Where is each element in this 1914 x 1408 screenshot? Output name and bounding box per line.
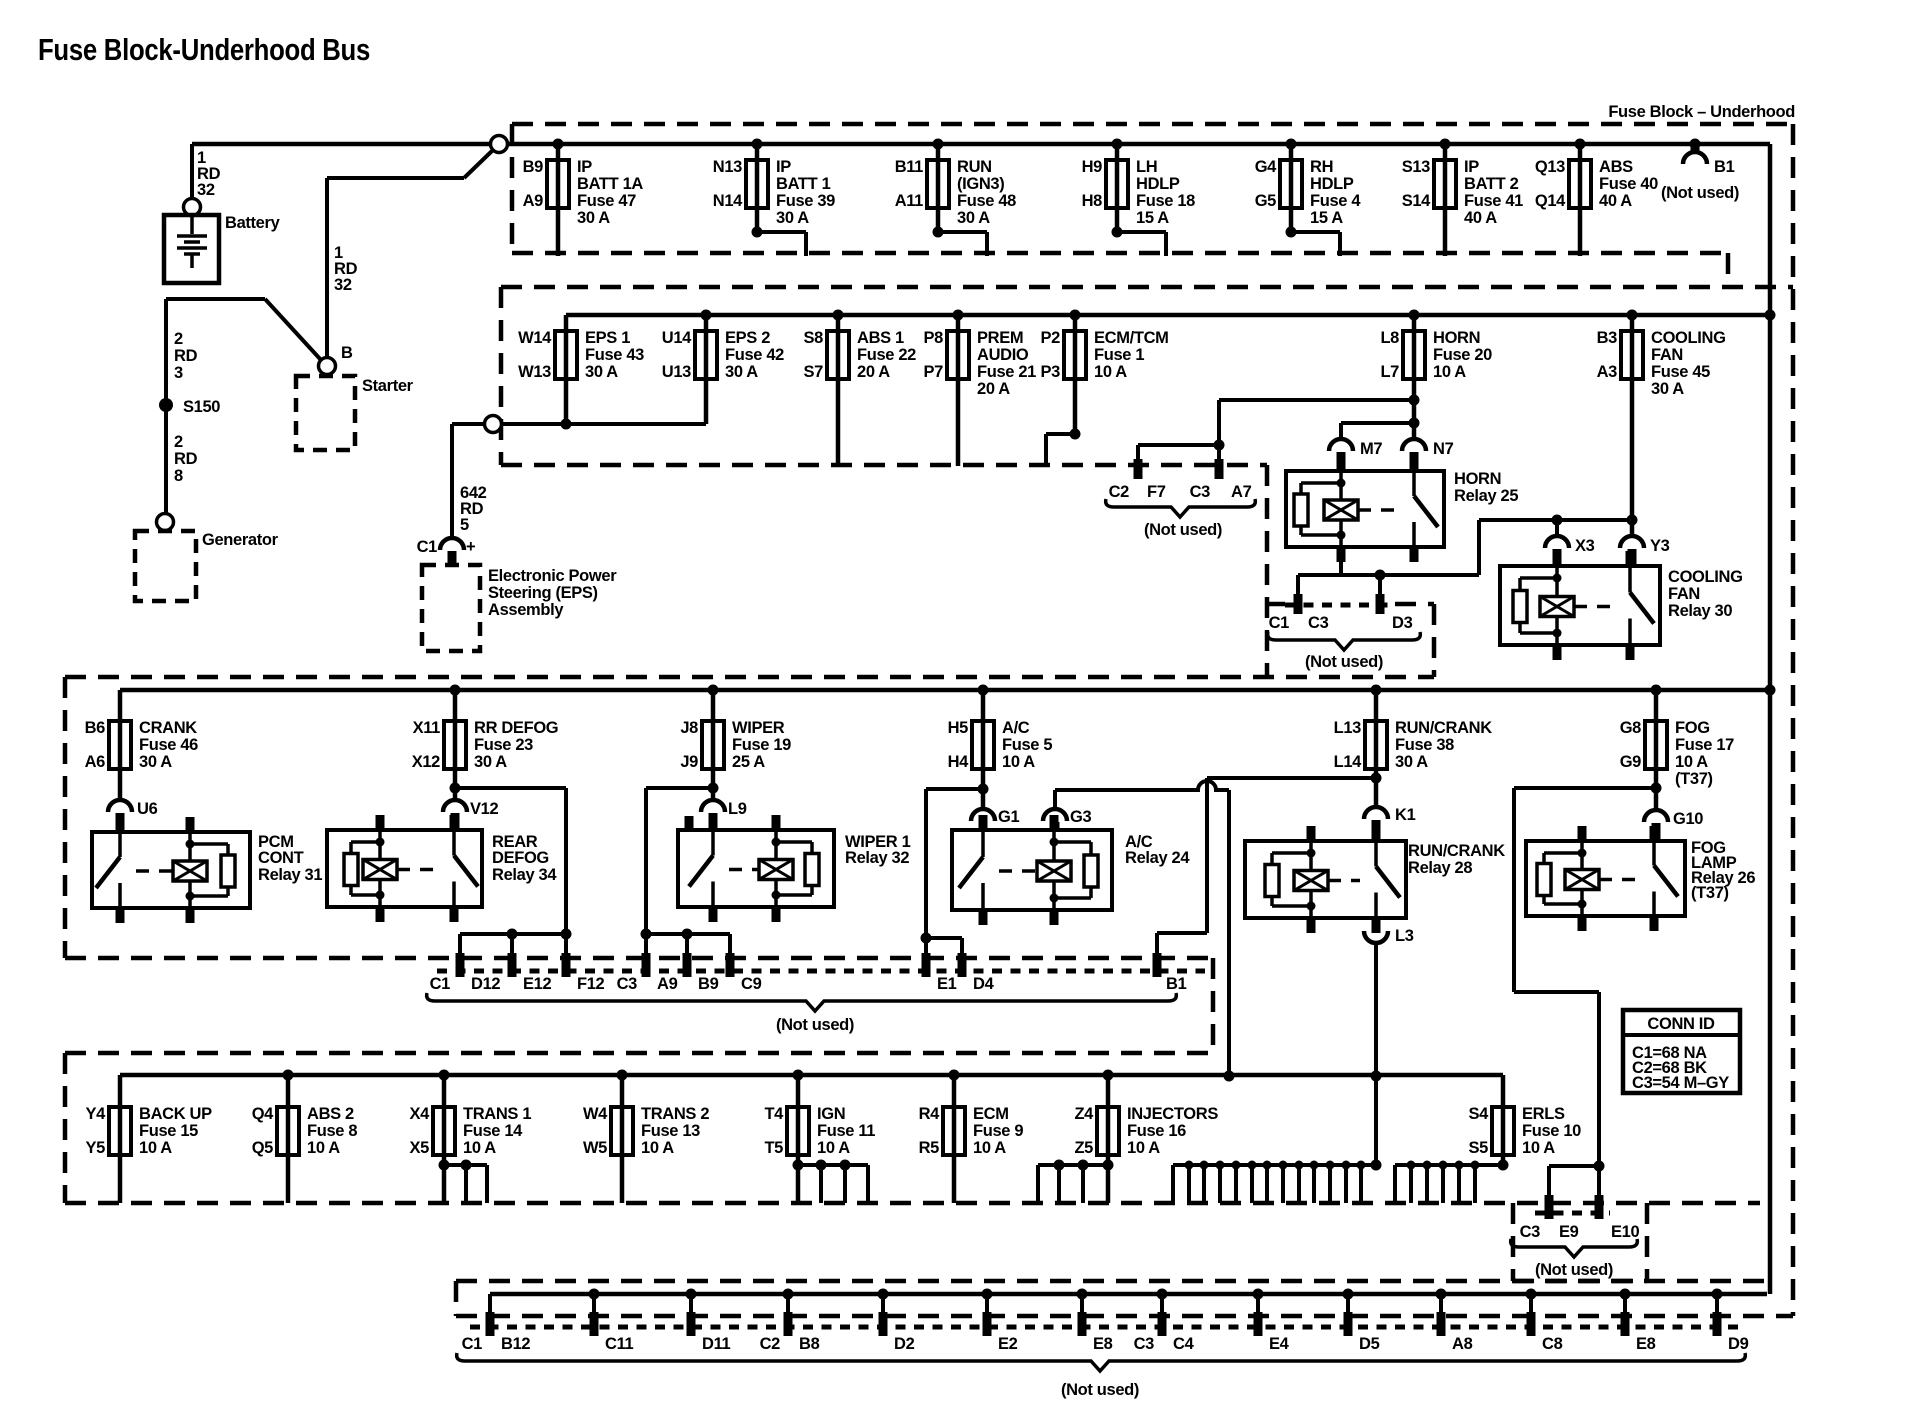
svg-text:Y3: Y3 — [1650, 537, 1670, 555]
svg-text:Q5: Q5 — [252, 1139, 273, 1157]
svg-text:B6: B6 — [85, 719, 106, 737]
svg-text:C11: C11 — [605, 1335, 633, 1353]
svg-text:COOLING: COOLING — [1668, 568, 1743, 586]
svg-text:FAN: FAN — [1668, 585, 1700, 603]
svg-text:Y4: Y4 — [86, 1105, 107, 1123]
svg-text:COOLING: COOLING — [1651, 329, 1726, 347]
svg-text:E9: E9 — [1559, 1223, 1579, 1241]
svg-text:LH: LH — [1136, 158, 1157, 176]
svg-text:N7: N7 — [1433, 440, 1454, 458]
svg-text:8: 8 — [174, 467, 183, 485]
svg-text:2: 2 — [174, 433, 183, 451]
svg-text:X4: X4 — [410, 1105, 431, 1123]
svg-text:J8: J8 — [680, 719, 698, 737]
svg-text:Relay 32: Relay 32 — [845, 849, 909, 867]
svg-text:IP: IP — [1464, 158, 1479, 176]
svg-text:25 A: 25 A — [732, 753, 765, 771]
svg-text:Fuse 16: Fuse 16 — [1127, 1122, 1186, 1140]
svg-text:C8: C8 — [1542, 1335, 1563, 1353]
svg-text:L14: L14 — [1334, 753, 1363, 771]
svg-text:Fuse 47: Fuse 47 — [577, 192, 636, 210]
svg-text:H8: H8 — [1082, 192, 1103, 210]
svg-text:N13: N13 — [713, 158, 742, 176]
svg-text:F12: F12 — [577, 975, 605, 993]
svg-text:10 A: 10 A — [641, 1139, 674, 1157]
svg-text:Fuse 17: Fuse 17 — [1675, 736, 1734, 754]
svg-text:HDLP: HDLP — [1310, 175, 1354, 193]
svg-text:RUN/CRANK: RUN/CRANK — [1408, 842, 1505, 860]
svg-text:10 A: 10 A — [139, 1139, 172, 1157]
svg-text:(Not used): (Not used) — [1305, 653, 1383, 671]
svg-text:Relay 31: Relay 31 — [258, 866, 322, 884]
svg-text:ABS: ABS — [1599, 158, 1633, 176]
svg-text:EPS 2: EPS 2 — [725, 329, 770, 347]
svg-text:A11: A11 — [895, 192, 923, 210]
svg-text:L3: L3 — [1395, 927, 1414, 945]
svg-text:WIPER: WIPER — [732, 719, 785, 737]
svg-text:15 A: 15 A — [1136, 209, 1169, 227]
svg-text:RD: RD — [174, 347, 198, 365]
svg-text:CONT: CONT — [258, 849, 304, 867]
svg-text:C1: C1 — [462, 1335, 483, 1353]
svg-text:D3: D3 — [1392, 614, 1413, 632]
svg-text:Z5: Z5 — [1074, 1139, 1093, 1157]
svg-text:C3: C3 — [1190, 483, 1211, 501]
svg-text:+: + — [466, 538, 475, 556]
svg-text:G1: G1 — [998, 808, 1019, 826]
svg-text:CRANK: CRANK — [139, 719, 197, 737]
svg-text:W5: W5 — [583, 1139, 607, 1157]
svg-text:10 A: 10 A — [1675, 753, 1708, 771]
svg-text:Fuse 38: Fuse 38 — [1395, 736, 1454, 754]
svg-text:30 A: 30 A — [1651, 380, 1684, 398]
svg-text:A6: A6 — [85, 753, 106, 771]
svg-text:G10: G10 — [1673, 810, 1703, 828]
svg-text:INJECTORS: INJECTORS — [1127, 1105, 1218, 1123]
svg-text:BACK UP: BACK UP — [139, 1105, 212, 1123]
svg-text:L8: L8 — [1380, 329, 1399, 347]
svg-text:E4: E4 — [1269, 1335, 1290, 1353]
svg-text:B3: B3 — [1597, 329, 1618, 347]
svg-text:P8: P8 — [924, 329, 944, 347]
svg-text:S13: S13 — [1402, 158, 1430, 176]
svg-text:5: 5 — [460, 516, 469, 534]
svg-text:H9: H9 — [1082, 158, 1103, 176]
svg-text:C4: C4 — [1173, 1335, 1195, 1353]
svg-text:2: 2 — [174, 330, 183, 348]
svg-text:G3: G3 — [1070, 808, 1091, 826]
svg-text:C3: C3 — [617, 975, 638, 993]
svg-text:Battery: Battery — [225, 214, 281, 232]
svg-text:S14: S14 — [1402, 192, 1431, 210]
svg-text:Q13: Q13 — [1535, 158, 1565, 176]
svg-text:AUDIO: AUDIO — [977, 346, 1029, 364]
svg-text:X12: X12 — [412, 753, 440, 771]
svg-text:Generator: Generator — [202, 531, 279, 549]
svg-text:X3: X3 — [1575, 537, 1595, 555]
svg-text:Fuse 23: Fuse 23 — [474, 736, 533, 754]
svg-text:P2: P2 — [1041, 329, 1061, 347]
svg-text:FAN: FAN — [1651, 346, 1683, 364]
svg-text:(IGN3): (IGN3) — [957, 175, 1004, 193]
svg-text:RUN/CRANK: RUN/CRANK — [1395, 719, 1492, 737]
svg-text:S8: S8 — [804, 329, 824, 347]
svg-text:C1: C1 — [430, 975, 451, 993]
svg-text:Assembly: Assembly — [488, 601, 564, 619]
svg-text:(Not used): (Not used) — [1061, 1381, 1139, 1399]
svg-text:E1: E1 — [937, 975, 957, 993]
svg-text:A8: A8 — [1452, 1335, 1473, 1353]
svg-text:S7: S7 — [804, 363, 824, 381]
svg-text:32: 32 — [197, 181, 215, 199]
svg-text:Relay 28: Relay 28 — [1408, 859, 1472, 877]
svg-text:10 A: 10 A — [463, 1139, 496, 1157]
svg-text:40 A: 40 A — [1599, 192, 1632, 210]
svg-text:Fuse 41: Fuse 41 — [1464, 192, 1523, 210]
svg-text:C1: C1 — [417, 538, 438, 556]
svg-text:B11: B11 — [895, 158, 923, 176]
svg-text:Q4: Q4 — [252, 1105, 274, 1123]
svg-text:C2: C2 — [760, 1335, 781, 1353]
svg-text:J9: J9 — [680, 753, 698, 771]
svg-text:Fuse 46: Fuse 46 — [139, 736, 198, 754]
svg-text:BATT 1A: BATT 1A — [577, 175, 643, 193]
svg-text:Q14: Q14 — [1535, 192, 1566, 210]
svg-text:N14: N14 — [713, 192, 743, 210]
svg-text:Fuse 5: Fuse 5 — [1002, 736, 1052, 754]
svg-text:G8: G8 — [1620, 719, 1641, 737]
svg-text:TRANS 2: TRANS 2 — [641, 1105, 709, 1123]
svg-text:10 A: 10 A — [817, 1139, 850, 1157]
svg-text:Starter: Starter — [362, 377, 414, 395]
svg-text:(Not used): (Not used) — [1144, 521, 1222, 539]
svg-text:Fuse 9: Fuse 9 — [973, 1122, 1023, 1140]
svg-text:B: B — [341, 344, 353, 362]
svg-text:Fuse 42: Fuse 42 — [725, 346, 784, 364]
svg-text:D5: D5 — [1359, 1335, 1380, 1353]
svg-text:DEFOG: DEFOG — [492, 849, 549, 867]
svg-text:(Not used): (Not used) — [1535, 1261, 1613, 1279]
svg-text:C9: C9 — [741, 975, 762, 993]
svg-text:Fuse 8: Fuse 8 — [307, 1122, 357, 1140]
svg-text:30 A: 30 A — [585, 363, 618, 381]
svg-text:IP: IP — [577, 158, 592, 176]
svg-text:TRANS 1: TRANS 1 — [463, 1105, 531, 1123]
svg-text:10 A: 10 A — [973, 1139, 1006, 1157]
svg-text:Steering (EPS): Steering (EPS) — [488, 584, 598, 602]
svg-text:RH: RH — [1310, 158, 1333, 176]
svg-text:G5: G5 — [1255, 192, 1276, 210]
svg-text:L7: L7 — [1380, 363, 1399, 381]
svg-text:U14: U14 — [662, 329, 692, 347]
svg-text:C1: C1 — [1269, 614, 1290, 632]
svg-text:L9: L9 — [728, 800, 747, 818]
svg-text:FOG: FOG — [1675, 719, 1710, 737]
svg-text:D4: D4 — [973, 975, 995, 993]
svg-text:Relay 25: Relay 25 — [1454, 487, 1518, 505]
svg-text:Relay 34: Relay 34 — [492, 866, 557, 884]
svg-text:40 A: 40 A — [1464, 209, 1497, 227]
svg-text:Fuse Block – Underhood: Fuse Block – Underhood — [1608, 103, 1795, 121]
svg-text:(Not used): (Not used) — [1661, 184, 1739, 202]
svg-text:IP: IP — [776, 158, 791, 176]
svg-text:30 A: 30 A — [474, 753, 507, 771]
svg-text:C3=54 M–GY: C3=54 M–GY — [1632, 1074, 1729, 1092]
svg-text:20 A: 20 A — [857, 363, 890, 381]
svg-text:E10: E10 — [1611, 1223, 1639, 1241]
svg-text:Fuse 22: Fuse 22 — [857, 346, 916, 364]
svg-text:L13: L13 — [1334, 719, 1362, 737]
svg-text:X5: X5 — [410, 1139, 430, 1157]
svg-text:P3: P3 — [1041, 363, 1061, 381]
svg-text:10 A: 10 A — [1094, 363, 1127, 381]
svg-text:B1: B1 — [1714, 158, 1735, 176]
svg-text:(Not used): (Not used) — [776, 1016, 854, 1034]
svg-text:Fuse 1: Fuse 1 — [1094, 346, 1144, 364]
svg-text:Fuse 45: Fuse 45 — [1651, 363, 1710, 381]
svg-text:A9: A9 — [657, 975, 678, 993]
svg-text:C3: C3 — [1520, 1223, 1541, 1241]
svg-text:V12: V12 — [470, 800, 498, 818]
svg-text:EPS 1: EPS 1 — [585, 329, 630, 347]
svg-text:D11: D11 — [702, 1335, 730, 1353]
svg-text:W4: W4 — [583, 1105, 608, 1123]
svg-text:X11: X11 — [413, 719, 441, 737]
svg-text:Fuse 48: Fuse 48 — [957, 192, 1016, 210]
svg-text:30 A: 30 A — [139, 753, 172, 771]
svg-text:D2: D2 — [894, 1335, 915, 1353]
svg-text:Fuse 18: Fuse 18 — [1136, 192, 1195, 210]
svg-text:Fuse 15: Fuse 15 — [139, 1122, 198, 1140]
svg-text:30 A: 30 A — [577, 209, 610, 227]
svg-text:B1: B1 — [1166, 975, 1187, 993]
svg-text:B9: B9 — [698, 975, 719, 993]
svg-text:Fuse 40: Fuse 40 — [1599, 175, 1658, 193]
svg-text:A3: A3 — [1597, 363, 1618, 381]
svg-text:R5: R5 — [919, 1139, 940, 1157]
svg-text:CONN ID: CONN ID — [1647, 1015, 1715, 1033]
svg-text:G4: G4 — [1255, 158, 1277, 176]
svg-text:15 A: 15 A — [1310, 209, 1343, 227]
svg-text:PREM: PREM — [977, 329, 1023, 347]
svg-text:S150: S150 — [183, 398, 220, 416]
svg-text:S5: S5 — [1469, 1139, 1489, 1157]
svg-text:BATT 1: BATT 1 — [776, 175, 831, 193]
svg-text:HORN: HORN — [1433, 329, 1480, 347]
svg-text:W14: W14 — [518, 329, 552, 347]
svg-text:Fuse 19: Fuse 19 — [732, 736, 791, 754]
svg-text:IGN: IGN — [817, 1105, 845, 1123]
svg-text:G9: G9 — [1620, 753, 1641, 771]
svg-text:B8: B8 — [799, 1335, 820, 1353]
svg-text:Fuse 21: Fuse 21 — [977, 363, 1036, 381]
svg-text:T5: T5 — [764, 1139, 783, 1157]
svg-text:ABS 1: ABS 1 — [857, 329, 904, 347]
svg-text:10 A: 10 A — [1002, 753, 1035, 771]
svg-text:E2: E2 — [998, 1335, 1018, 1353]
svg-text:10 A: 10 A — [1522, 1139, 1555, 1157]
svg-text:Z4: Z4 — [1074, 1105, 1094, 1123]
svg-text:Fuse 13: Fuse 13 — [641, 1122, 700, 1140]
svg-text:Fuse 43: Fuse 43 — [585, 346, 644, 364]
svg-text:E8: E8 — [1636, 1335, 1656, 1353]
svg-text:RD: RD — [174, 450, 198, 468]
svg-text:B12: B12 — [501, 1335, 530, 1353]
svg-text:30 A: 30 A — [957, 209, 990, 227]
svg-text:Fuse 39: Fuse 39 — [776, 192, 835, 210]
svg-text:M7: M7 — [1360, 440, 1382, 458]
svg-text:E12: E12 — [523, 975, 551, 993]
svg-text:P7: P7 — [924, 363, 944, 381]
svg-text:Relay 24: Relay 24 — [1125, 849, 1190, 867]
svg-text:Electronic Power: Electronic Power — [488, 567, 617, 585]
svg-text:32: 32 — [334, 276, 352, 294]
svg-text:Fuse 11: Fuse 11 — [817, 1122, 875, 1140]
svg-text:10 A: 10 A — [1433, 363, 1466, 381]
svg-text:H5: H5 — [948, 719, 969, 737]
svg-text:Fuse 20: Fuse 20 — [1433, 346, 1492, 364]
svg-text:D9: D9 — [1728, 1335, 1749, 1353]
svg-text:20 A: 20 A — [977, 380, 1010, 398]
svg-text:10 A: 10 A — [307, 1139, 340, 1157]
svg-text:HDLP: HDLP — [1136, 175, 1180, 193]
svg-text:(T37): (T37) — [1675, 770, 1713, 788]
svg-text:U13: U13 — [662, 363, 691, 381]
svg-text:RUN: RUN — [957, 158, 992, 176]
svg-text:C3: C3 — [1308, 614, 1329, 632]
svg-text:30 A: 30 A — [725, 363, 758, 381]
svg-text:F7: F7 — [1147, 483, 1166, 501]
svg-text:Fuse Block-Underhood Bus: Fuse Block-Underhood Bus — [38, 32, 370, 67]
svg-text:U6: U6 — [137, 800, 158, 818]
svg-text:10 A: 10 A — [1127, 1139, 1160, 1157]
svg-text:W13: W13 — [518, 363, 551, 381]
svg-text:A/C: A/C — [1002, 719, 1030, 737]
svg-text:K1: K1 — [1395, 806, 1416, 824]
svg-text:RR DEFOG: RR DEFOG — [474, 719, 558, 737]
svg-text:ERLS: ERLS — [1522, 1105, 1565, 1123]
svg-text:30 A: 30 A — [1395, 753, 1428, 771]
svg-text:ECM: ECM — [973, 1105, 1009, 1123]
svg-text:C2: C2 — [1109, 483, 1130, 501]
svg-text:ABS 2: ABS 2 — [307, 1105, 354, 1123]
svg-text:D12: D12 — [471, 975, 500, 993]
svg-text:Fuse 4: Fuse 4 — [1310, 192, 1361, 210]
svg-text:A9: A9 — [523, 192, 544, 210]
svg-text:ECM/TCM: ECM/TCM — [1094, 329, 1169, 347]
svg-text:Fuse 14: Fuse 14 — [463, 1122, 523, 1140]
svg-text:3: 3 — [174, 364, 183, 382]
svg-text:H4: H4 — [948, 753, 970, 771]
svg-text:(T37): (T37) — [1691, 884, 1729, 902]
svg-text:B9: B9 — [523, 158, 544, 176]
svg-text:A7: A7 — [1231, 483, 1252, 501]
svg-text:HORN: HORN — [1454, 470, 1501, 488]
svg-text:R4: R4 — [919, 1105, 941, 1123]
svg-text:T4: T4 — [764, 1105, 784, 1123]
svg-text:C3: C3 — [1134, 1335, 1155, 1353]
svg-text:Fuse 10: Fuse 10 — [1522, 1122, 1581, 1140]
svg-text:BATT 2: BATT 2 — [1464, 175, 1519, 193]
svg-text:Relay 30: Relay 30 — [1668, 602, 1732, 620]
svg-text:S4: S4 — [1469, 1105, 1490, 1123]
svg-text:E8: E8 — [1093, 1335, 1113, 1353]
svg-text:Y5: Y5 — [86, 1139, 106, 1157]
svg-text:30 A: 30 A — [776, 209, 809, 227]
